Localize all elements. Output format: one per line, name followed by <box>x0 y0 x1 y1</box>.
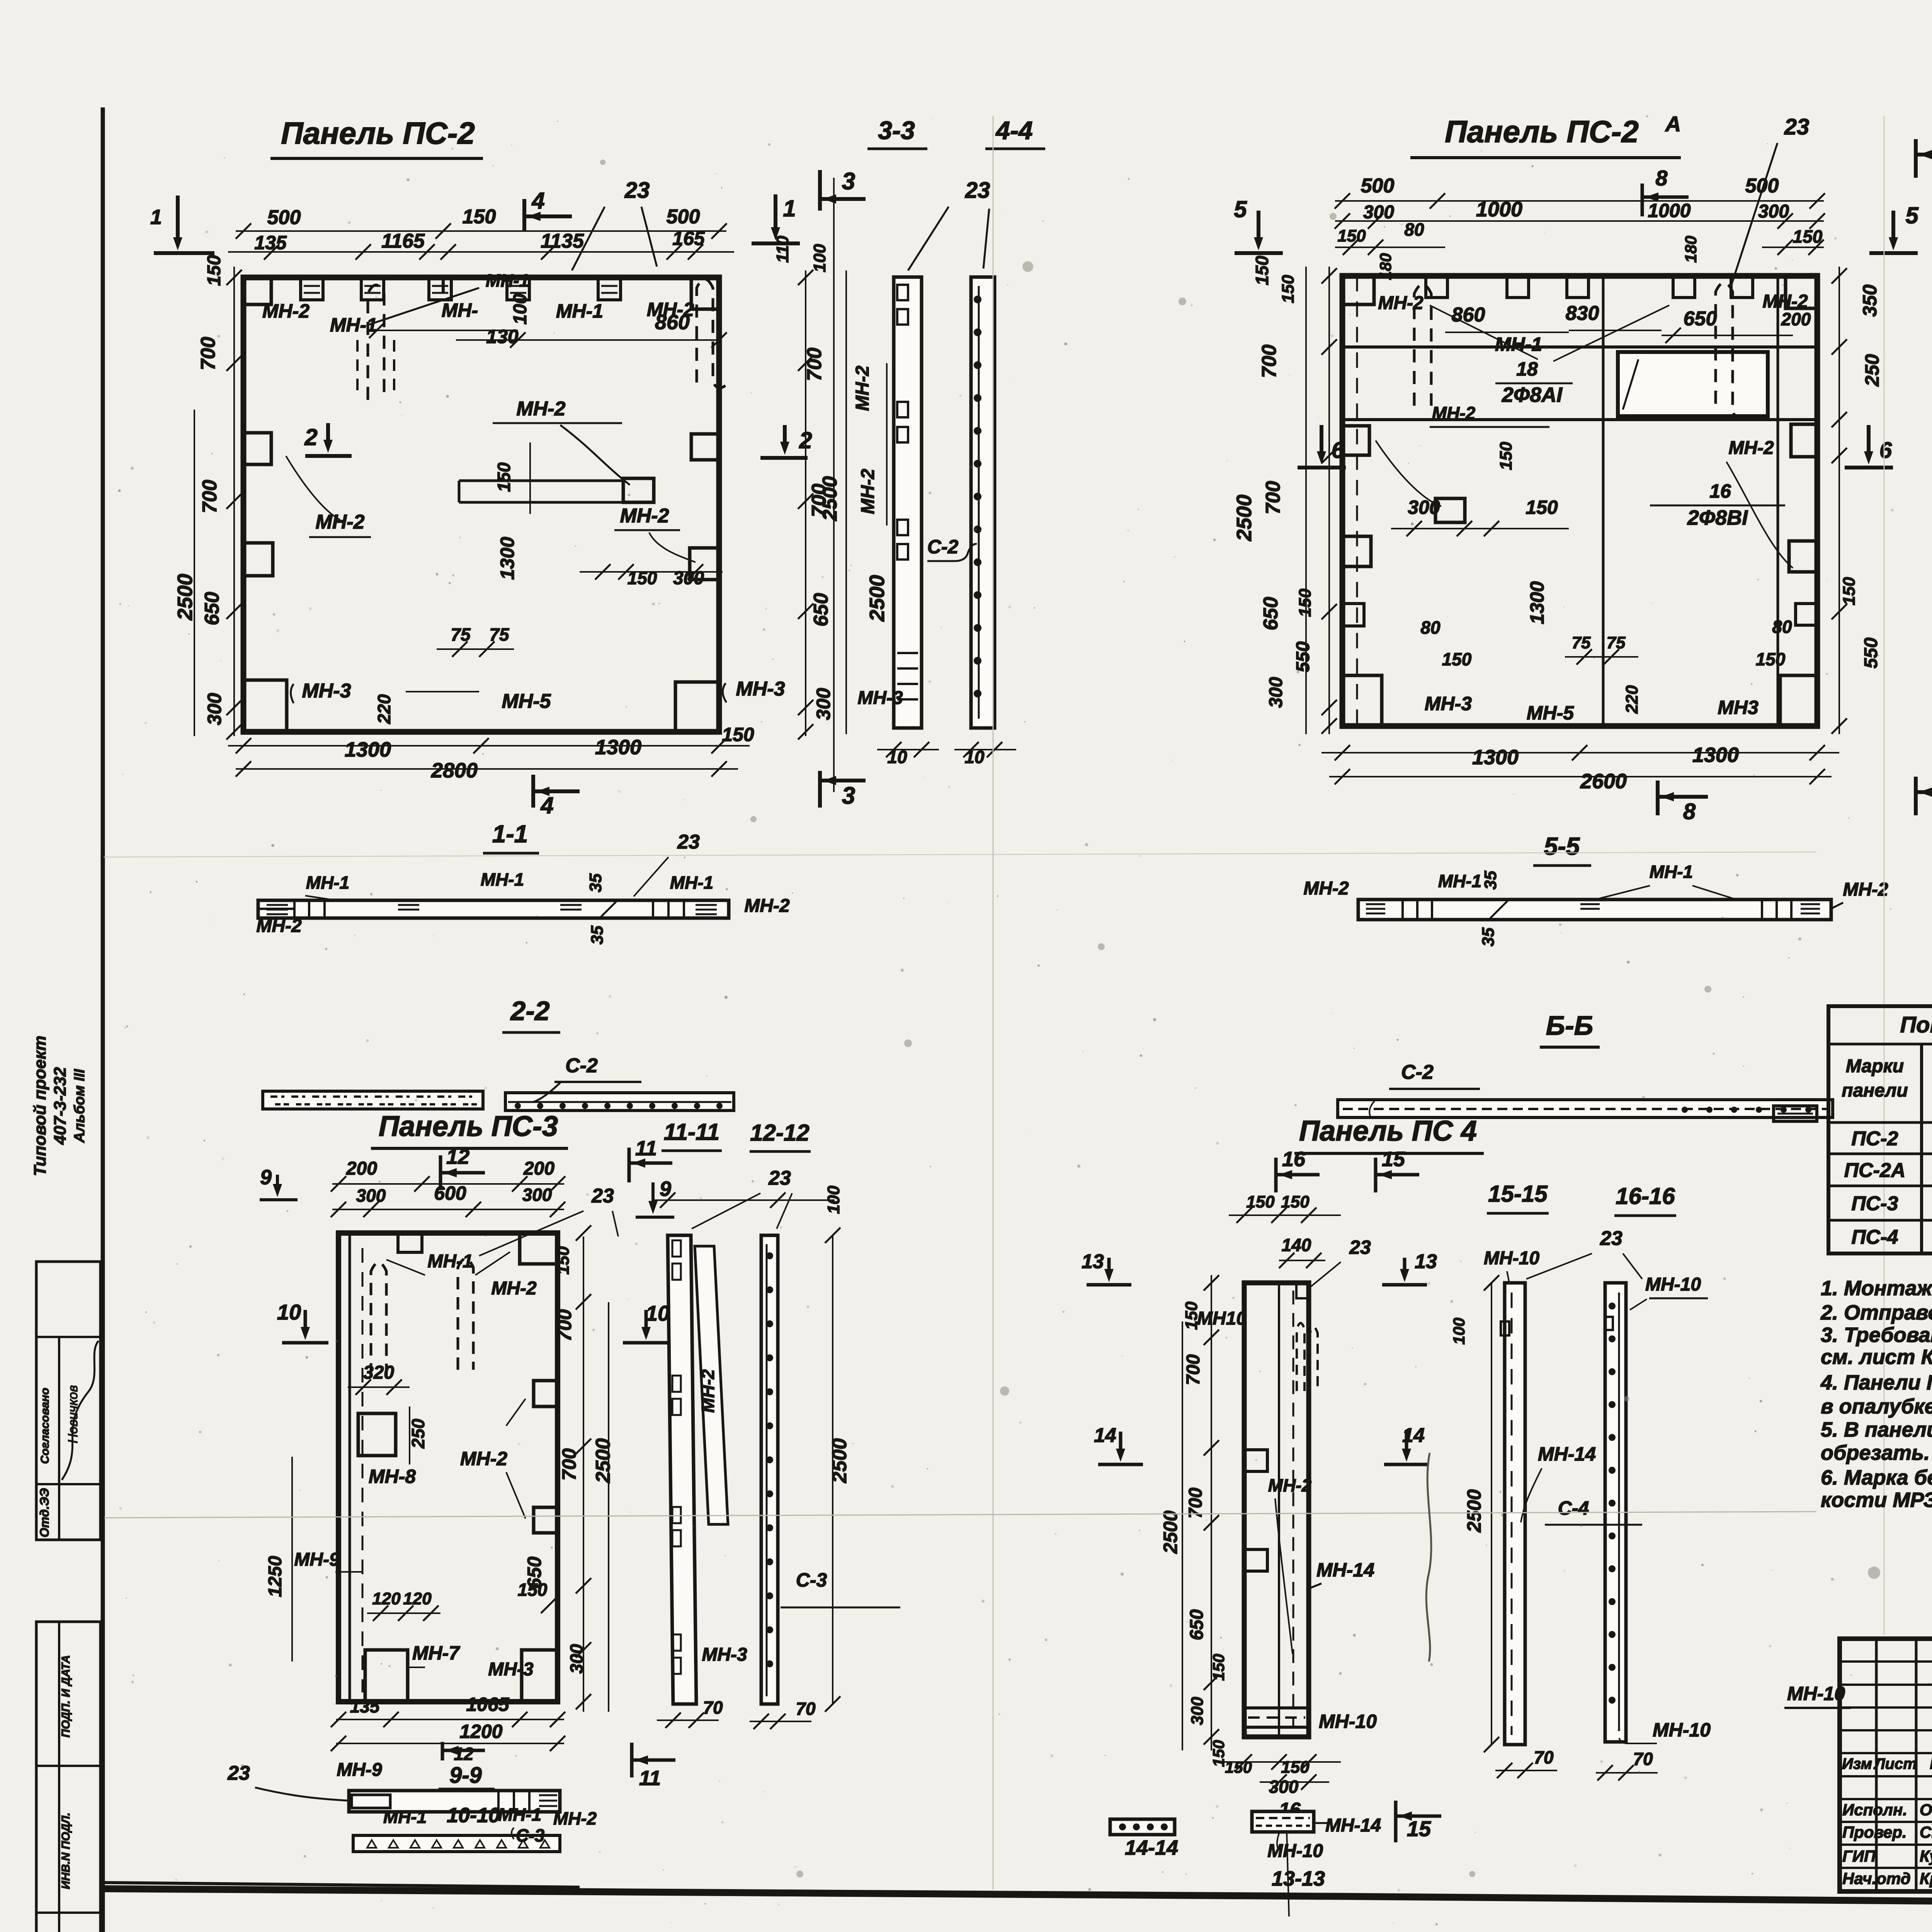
svg-text:С-2: С-2 <box>1401 1061 1434 1083</box>
svg-text:300: 300 <box>356 1185 386 1206</box>
svg-text:650: 650 <box>201 592 223 626</box>
svg-text:МН-2: МН-2 <box>744 896 790 916</box>
svg-text:см. лист КЖ-8.: см. лист КЖ-8. <box>1821 1345 1932 1369</box>
panel PS-4 top dims <box>1229 1214 1341 1216</box>
panel PS-2 vertical divider mid <box>442 277 445 294</box>
svg-text:2500: 2500 <box>866 575 889 622</box>
panel PS-2A dims 300 150 mid <box>1391 528 1569 529</box>
svg-text:МН-10: МН-10 <box>1787 1683 1845 1704</box>
section 13-13 strip <box>1252 1811 1314 1832</box>
svg-text:320: 320 <box>363 1362 394 1383</box>
svg-text:23: 23 <box>624 178 650 203</box>
svg-text:обрезать.: обрезать. <box>1821 1441 1930 1464</box>
svg-text:650: 650 <box>1684 308 1717 330</box>
panel PS-4 outline <box>1244 1283 1309 1737</box>
svg-text:МН-2: МН-2 <box>516 398 565 420</box>
panel PS-3 left inner line <box>349 1233 351 1702</box>
svg-text:МН-3: МН-3 <box>302 680 351 702</box>
svg-text:150: 150 <box>1246 1192 1275 1211</box>
section 4-4 rebar dots <box>974 296 981 303</box>
paper crack mark <box>1426 1453 1431 1662</box>
svg-text:МН-1: МН-1 <box>1495 333 1542 355</box>
svg-text:200: 200 <box>346 1158 377 1179</box>
svg-text:4-4: 4-4 <box>995 116 1032 145</box>
svg-text:75: 75 <box>1607 633 1626 652</box>
svg-text:100: 100 <box>510 294 531 325</box>
svg-text:2. Отправочные марки см. листы: 2. Отправочные марки см. листы КЖ-17, КМ… <box>1820 1301 1932 1324</box>
panel PS-2A lifting loop left <box>1414 284 1431 406</box>
svg-text:МН-2: МН-2 <box>1432 403 1476 423</box>
B-B strip <box>1338 1100 1833 1117</box>
svg-text:120: 120 <box>403 1589 432 1608</box>
panel PS-3 bottom left plate <box>365 1650 408 1702</box>
section 12-12 rebar dots <box>766 1252 773 1259</box>
panel PS-3 lifting loop left <box>371 1263 386 1376</box>
panel PS-2A top corner step right <box>1786 276 1817 308</box>
svg-text:2500: 2500 <box>828 1438 851 1483</box>
svg-text:ГИП: ГИП <box>1842 1847 1876 1865</box>
svg-text:5-5: 5-5 <box>1544 832 1580 860</box>
svg-text:11-11: 11-11 <box>664 1119 720 1145</box>
panel PS-2A outline <box>1342 276 1817 726</box>
svg-text:650: 650 <box>810 593 832 627</box>
svg-text:МН-3: МН-3 <box>702 1645 747 1665</box>
svg-text:110: 110 <box>773 235 792 263</box>
svg-text:700: 700 <box>1183 1354 1204 1385</box>
svg-text:500: 500 <box>1361 175 1395 197</box>
svg-text:16: 16 <box>1282 1148 1306 1171</box>
svg-text:14: 14 <box>1094 1424 1116 1447</box>
svg-text:2Ф8ВI: 2Ф8ВI <box>1687 506 1748 529</box>
section 9-9 strip <box>349 1791 560 1812</box>
svg-text:140: 140 <box>1282 1235 1311 1255</box>
svg-text:МН-2: МН-2 <box>553 1808 597 1828</box>
svg-text:15: 15 <box>1382 1148 1405 1171</box>
panel PS-2A lifting loop right <box>1716 283 1740 418</box>
svg-text:700: 700 <box>197 337 219 371</box>
svg-text:150: 150 <box>1296 588 1315 617</box>
section marker 13 left <box>1107 1258 1111 1273</box>
svg-text:5: 5 <box>1234 196 1247 222</box>
section 11-12 top dim ticks <box>653 1199 835 1201</box>
svg-text:75: 75 <box>489 624 510 645</box>
svg-text:150: 150 <box>1793 226 1823 247</box>
svg-text:16: 16 <box>1709 480 1731 502</box>
svg-text:МН-14: МН-14 <box>1316 1559 1374 1581</box>
svg-text:23: 23 <box>677 831 700 853</box>
svg-text:300: 300 <box>1188 1697 1207 1725</box>
svg-text:1200: 1200 <box>459 1721 502 1742</box>
panel PS-3 top plate <box>398 1233 422 1252</box>
svg-text:150: 150 <box>1279 275 1298 303</box>
svg-text:10: 10 <box>887 747 907 767</box>
svg-text:2800: 2800 <box>431 759 478 782</box>
panel PS-2 dim 860 line <box>456 339 719 341</box>
section marker 8 bottom <box>1656 781 1660 815</box>
svg-text:150: 150 <box>1442 649 1472 669</box>
svg-text:МН-2: МН-2 <box>315 511 364 533</box>
section 12-12 dim 70 <box>750 1721 811 1722</box>
panel PS-2A opening <box>1618 352 1768 416</box>
svg-text:8: 8 <box>1683 799 1696 824</box>
svg-text:6: 6 <box>1332 438 1344 463</box>
svg-text:700: 700 <box>558 1448 580 1481</box>
svg-text:1065: 1065 <box>466 1694 509 1715</box>
section marker 1 left <box>176 196 180 241</box>
section marker 6 right <box>1867 425 1871 456</box>
svg-text:МН3: МН3 <box>1718 697 1759 718</box>
svg-text:ПОДП. И ДАТА: ПОДП. И ДАТА <box>60 1655 72 1738</box>
panel PS-4 bottom dims <box>1221 1761 1341 1763</box>
svg-text:Кузнецов: Кузнецов <box>1920 1847 1932 1865</box>
section marker 14 left <box>1119 1432 1122 1453</box>
section marker 15 bottom <box>1394 1801 1398 1842</box>
section marker 5 left <box>1257 211 1260 241</box>
svg-text:15-15: 15-15 <box>1488 1181 1548 1207</box>
svg-text:2: 2 <box>304 424 317 450</box>
section 15-15 top notch <box>1501 1321 1509 1335</box>
panel PS-2A bottom dim A <box>1321 752 1839 753</box>
svg-text:150: 150 <box>1337 226 1366 245</box>
panel PS-2 dims 75 75 <box>437 648 514 650</box>
svg-text:3: 3 <box>842 168 855 195</box>
svg-text:860: 860 <box>1452 304 1485 326</box>
svg-text:Отд.ЭЭ: Отд.ЭЭ <box>37 1488 51 1537</box>
svg-text:МН10: МН10 <box>1197 1308 1247 1329</box>
svg-text:250: 250 <box>408 1418 428 1449</box>
svg-text:12: 12 <box>454 1744 474 1764</box>
section marker 1 right <box>774 194 777 232</box>
panel PS-3 right edge plate upper <box>534 1381 558 1406</box>
panel PS-4 left plate upper <box>1244 1450 1267 1471</box>
panel PS-2 top corner step left <box>243 277 271 304</box>
panel PS-2A bottom corner notch left <box>1342 675 1382 726</box>
svg-text:3: 3 <box>842 782 855 809</box>
panel PS-2 right edge plate upper <box>691 434 719 460</box>
panel PS-2A right edge plates <box>1791 424 1817 457</box>
svg-text:1300: 1300 <box>497 537 518 580</box>
svg-text:12-12: 12-12 <box>750 1120 809 1146</box>
svg-text:300: 300 <box>813 688 834 720</box>
svg-text:75: 75 <box>1572 633 1591 652</box>
svg-text:МН-1: МН-1 <box>306 872 349 893</box>
svg-text:3-3: 3-3 <box>878 116 915 145</box>
svg-text:МН-9: МН-9 <box>337 1760 382 1780</box>
svg-text:70: 70 <box>796 1699 816 1719</box>
svg-text:150: 150 <box>494 462 514 492</box>
svg-text:Красавин: Красавин <box>1920 1869 1932 1888</box>
svg-text:23: 23 <box>1349 1236 1371 1258</box>
svg-text:70: 70 <box>703 1697 723 1718</box>
section marker 7 bottom <box>1914 777 1918 815</box>
svg-text:700: 700 <box>1262 481 1284 515</box>
section marker 12 bottom <box>441 1742 444 1760</box>
svg-text:МН-2: МН-2 <box>1843 879 1888 900</box>
svg-text:2500: 2500 <box>1160 1510 1181 1554</box>
svg-text:300: 300 <box>1266 677 1286 708</box>
section 5-5 strip <box>1358 900 1831 920</box>
panel PS-3 right edge plate lower <box>534 1507 558 1533</box>
svg-text:Сычев: Сычев <box>1920 1823 1932 1841</box>
panel PS-3 top dim lines <box>332 1183 564 1185</box>
panel PS-2A dims 75 75 <box>1565 656 1638 658</box>
panel PS-4 left dim chain <box>1211 1275 1212 1750</box>
svg-text:80: 80 <box>1404 219 1424 240</box>
sheet frame bottom border <box>101 1889 1932 1907</box>
svg-text:Изм: Изм <box>1842 1755 1872 1772</box>
svg-text:5. В панели ПС-2 сетку С-2: 5. В панели ПС-2 сетку С-2 по месту <box>1821 1418 1932 1441</box>
panel PS-2A top dim 1000 8 marker <box>1641 184 1644 216</box>
svg-text:кости МРЗ-100.: кости МРЗ-100. <box>1821 1488 1932 1512</box>
section marker 16 top <box>1274 1158 1278 1192</box>
svg-text:Панель ПС-3: Панель ПС-3 <box>379 1110 558 1142</box>
svg-text:МН-1: МН-1 <box>383 1807 427 1827</box>
svg-text:11: 11 <box>639 1767 661 1790</box>
panel PS-3 outline <box>338 1233 558 1702</box>
panel PS-2A bottom corner notch right <box>1780 675 1817 726</box>
panel PS-2A top corner step left <box>1342 276 1374 304</box>
section 11-11 dim 70 <box>657 1719 719 1721</box>
section 15-15 strip <box>1505 1283 1525 1745</box>
svg-text:4. Панели ПС-2 ; ПС-3; ПС-4: 4. Панели ПС-2 ; ПС-3; ПС-4 изготовляютс… <box>1820 1371 1932 1394</box>
svg-text:120: 120 <box>372 1589 401 1608</box>
svg-text:500: 500 <box>267 206 301 229</box>
svg-text:300: 300 <box>1363 202 1394 223</box>
title block left grid <box>1875 1639 1878 1891</box>
svg-text:80: 80 <box>1772 617 1792 637</box>
section 16-16 rebar dots <box>1609 1303 1616 1310</box>
svg-text:2500: 2500 <box>1233 495 1256 541</box>
svg-text:300: 300 <box>204 693 225 725</box>
svg-text:МН-2: МН-2 <box>262 300 310 322</box>
section marker 15 top <box>1374 1158 1378 1192</box>
svg-text:С-3: С-3 <box>796 1569 827 1591</box>
panel PS-2A inner vertical line right <box>1777 276 1779 726</box>
panel PS-2A inner horizontal line lower <box>1342 418 1817 421</box>
svg-text:700: 700 <box>803 348 826 381</box>
svg-text:150: 150 <box>1497 442 1515 470</box>
svg-text:ПС-3: ПС-3 <box>1851 1192 1898 1215</box>
svg-text:4: 4 <box>531 188 544 214</box>
svg-text:2500: 2500 <box>592 1438 614 1483</box>
svg-text:МН-1: МН-1 <box>1650 862 1693 882</box>
svg-text:МН-2: МН-2 <box>858 469 878 514</box>
svg-text:150: 150 <box>1209 1654 1228 1681</box>
section 3-3 strip <box>894 277 922 728</box>
svg-text:35: 35 <box>586 873 605 892</box>
panel PS-2 inner dim 830 line <box>377 330 518 331</box>
section 16-16 strip <box>1605 1283 1626 1742</box>
panel PS-2 left dim chain <box>233 267 235 736</box>
section marker 7 top <box>1914 139 1918 178</box>
paper crease line 2 <box>104 852 1816 857</box>
svg-text:70: 70 <box>1534 1747 1554 1767</box>
svg-text:300: 300 <box>522 1185 552 1205</box>
svg-text:12: 12 <box>446 1145 469 1168</box>
svg-text:550: 550 <box>1293 641 1313 672</box>
svg-text:700: 700 <box>1258 345 1281 378</box>
svg-text:10: 10 <box>964 747 985 767</box>
svg-text:407-3-232: 407-3-232 <box>51 1067 70 1145</box>
svg-text:13: 13 <box>1415 1250 1437 1273</box>
panel PS-2A top edge plates <box>1426 276 1447 298</box>
svg-text:МН-2: МН-2 <box>1378 293 1423 313</box>
section 10-10 strip <box>353 1835 560 1852</box>
panel PS-2 right edge plate lower <box>690 548 719 580</box>
svg-text:700: 700 <box>554 1309 575 1342</box>
svg-text:2-2: 2-2 <box>510 996 549 1026</box>
panel PS-2A left edge plates <box>1342 426 1369 455</box>
svg-text:1165: 1165 <box>381 230 425 252</box>
panel PS-2 right dim chain <box>805 270 806 736</box>
svg-text:Овчинников: Овчинников <box>1920 1801 1932 1819</box>
panel PS-2 bottom corner notch right <box>675 682 719 732</box>
panel PS-2 outline <box>243 277 719 732</box>
svg-text:МН-5: МН-5 <box>502 690 551 713</box>
svg-text:35: 35 <box>1479 927 1498 946</box>
svg-text:300: 300 <box>673 568 704 588</box>
svg-text:220: 220 <box>374 694 394 724</box>
section 4-4 strip <box>971 277 995 728</box>
panel PS-2 lifting loop right dashed <box>697 279 726 388</box>
svg-text:Панель ПС-2: Панель ПС-2 <box>281 116 475 150</box>
section marker 3 top <box>818 170 822 211</box>
svg-text:23: 23 <box>591 1185 614 1207</box>
section marker 2 right <box>783 425 787 446</box>
svg-text:МН-10: МН-10 <box>1484 1248 1539 1269</box>
panel PS-2 top dim line A <box>236 230 726 232</box>
sheet frame left border <box>101 107 105 1932</box>
svg-text:70: 70 <box>1633 1749 1653 1769</box>
svg-text:165: 165 <box>672 228 705 249</box>
svg-text:13-13: 13-13 <box>1272 1867 1325 1890</box>
svg-text:С-4: С-4 <box>1558 1497 1589 1519</box>
svg-text:МН-9: МН-9 <box>294 1549 340 1570</box>
svg-text:МН-2: МН-2 <box>1303 878 1349 899</box>
svg-text:100: 100 <box>1450 1318 1468 1345</box>
panel PS-2 bottom dim line A <box>228 745 750 747</box>
svg-text:МН-10: МН-10 <box>1653 1719 1711 1741</box>
panel PS-2A top dim line B <box>1335 220 1824 222</box>
svg-text:300: 300 <box>566 1644 587 1673</box>
section marker 4 bottom <box>531 775 535 808</box>
svg-text:130: 130 <box>486 326 519 347</box>
svg-text:35: 35 <box>1481 871 1500 889</box>
svg-text:10: 10 <box>646 1301 670 1325</box>
svg-text:150: 150 <box>722 724 754 745</box>
svg-text:650: 650 <box>1187 1609 1207 1640</box>
section marker 11 top <box>628 1148 631 1182</box>
svg-text:МН-1: МН-1 <box>498 1804 541 1825</box>
panel PS-3 right dim chain <box>583 1236 584 1712</box>
svg-text:10-10: 10-10 <box>447 1804 500 1827</box>
svg-text:15: 15 <box>1407 1816 1431 1841</box>
svg-text:1300: 1300 <box>595 736 641 759</box>
svg-text:А: А <box>1665 112 1681 136</box>
svg-text:1300: 1300 <box>1472 746 1519 769</box>
section marker 10 left <box>304 1310 307 1331</box>
svg-text:МН-3: МН-3 <box>488 1659 534 1680</box>
svg-text:1300: 1300 <box>1526 581 1548 624</box>
svg-text:13: 13 <box>1082 1250 1104 1273</box>
svg-text:Альбом III: Альбом III <box>71 1068 88 1143</box>
panel PS-2A inner vertical line left <box>1602 276 1605 726</box>
section 16-16 top notch <box>1605 1317 1613 1330</box>
panel PS-4 inner line <box>1278 1283 1280 1737</box>
svg-text:МН-2: МН-2 <box>620 505 669 527</box>
svg-text:250: 250 <box>1861 354 1883 387</box>
section 12-12 strip <box>761 1235 778 1704</box>
svg-text:МН-2: МН-2 <box>460 1448 507 1469</box>
svg-text:1000: 1000 <box>1648 200 1690 221</box>
svg-text:N докум.: N докум. <box>1930 1754 1932 1772</box>
svg-text:Лист: Лист <box>1873 1755 1917 1772</box>
svg-text:МН-14: МН-14 <box>1325 1815 1381 1836</box>
panel PS-2A left dim chain <box>1328 267 1330 734</box>
panel PS-4 lifting loops <box>1297 1323 1304 1391</box>
svg-text:1250: 1250 <box>265 1556 286 1597</box>
panel PS-2 dims 150 300 <box>580 571 723 573</box>
svg-text:МН-1: МН-1 <box>1438 871 1481 891</box>
panel PS-2A left inner dashed line <box>1356 276 1358 726</box>
svg-text:220: 220 <box>1622 685 1641 714</box>
svg-text:300: 300 <box>1408 497 1440 518</box>
svg-text:300: 300 <box>1758 201 1789 222</box>
svg-text:1: 1 <box>150 206 162 229</box>
svg-text:150: 150 <box>463 206 496 228</box>
svg-text:200: 200 <box>523 1158 554 1179</box>
panel PS-4 left plate lower <box>1244 1549 1267 1571</box>
svg-text:500: 500 <box>667 206 700 228</box>
svg-text:Марки: Марки <box>1846 1056 1904 1077</box>
svg-text:2500: 2500 <box>819 476 841 521</box>
svg-text:Б-Б: Б-Б <box>1546 1010 1593 1041</box>
svg-text:3. Требования к изготовлению: 3. Требования к изготовлению панелей <box>1821 1323 1932 1347</box>
svg-text:35: 35 <box>588 925 607 944</box>
paper fold crease vertical 1 <box>993 116 994 1889</box>
svg-text:МН-2: МН-2 <box>491 1278 537 1299</box>
svg-text:23: 23 <box>965 178 990 203</box>
section marker 6 left <box>1320 425 1323 456</box>
panel PS-3 bottom right plate <box>522 1650 558 1702</box>
svg-text:23: 23 <box>1600 1227 1622 1250</box>
svg-text:700: 700 <box>199 480 221 514</box>
svg-text:550: 550 <box>1861 638 1881 668</box>
svg-text:МН-1: МН-1 <box>427 1251 473 1272</box>
section marker 13 right <box>1403 1258 1406 1273</box>
section 1-1 strip <box>258 900 729 918</box>
section 1-1 left end detail <box>258 908 294 910</box>
svg-text:МН-2: МН-2 <box>698 1369 718 1413</box>
svg-text:150: 150 <box>1225 1758 1252 1776</box>
svg-text:ПС-4: ПС-4 <box>1851 1226 1898 1248</box>
panel PS-2A top dim line A <box>1335 200 1824 202</box>
panel PS-2A small plate mid <box>1435 498 1465 522</box>
svg-text:2: 2 <box>799 427 812 453</box>
svg-text:80: 80 <box>1420 617 1440 638</box>
svg-text:С-3: С-3 <box>516 1825 545 1845</box>
svg-text:200: 200 <box>1781 309 1811 329</box>
panel PS-2 top dim line B <box>228 251 734 253</box>
svg-text:МН-10: МН-10 <box>1645 1274 1701 1295</box>
panel PS-3 square hole <box>358 1413 396 1456</box>
svg-text:Панель ПС-2: Панель ПС-2 <box>1445 114 1639 149</box>
svg-text:1135: 1135 <box>541 230 584 252</box>
section marker 14 right <box>1405 1432 1408 1453</box>
svg-text:1000: 1000 <box>1476 198 1522 221</box>
svg-text:МН-7: МН-7 <box>412 1642 460 1664</box>
svg-text:6. Марка бетона панелей по: 6. Марка бетона панелей по морозостой- <box>1821 1466 1932 1489</box>
